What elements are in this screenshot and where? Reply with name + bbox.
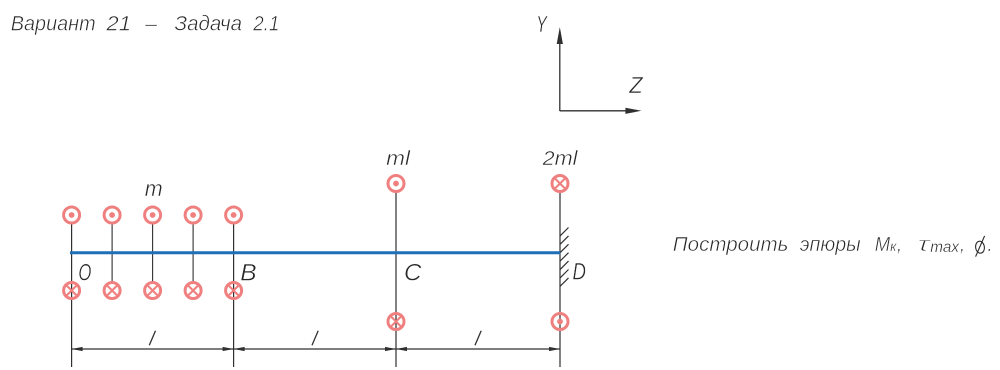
dimension line O-D: [72, 348, 560, 350]
beam (shaft) O-D: [70, 251, 561, 254]
wire: column 4 vertical line: [192, 224, 194, 283]
wire: column B vertical line: [233, 224, 235, 367]
axis Z arrowhead: [625, 108, 641, 114]
torque symbol: cross circle bottom m-row 4: [185, 283, 201, 299]
support hatching at D: [560, 228, 568, 287]
torque symbol: cross circle below C: [388, 314, 404, 330]
torque symbol: dot circle top m-row 4: [185, 207, 201, 223]
svg-text:D: D: [573, 259, 587, 286]
svg-text:B: B: [240, 259, 256, 286]
dimension label l (C-D): [475, 331, 481, 345]
dimension arrows at C: [385, 347, 407, 351]
torque symbol: cross circle bottom m-row 5: [226, 283, 242, 299]
wire: column 2 vertical line: [111, 224, 113, 283]
torque symbol: dot circle above C: [388, 176, 404, 192]
svg-text:O: O: [78, 259, 91, 286]
svg-text:Вариант21–Задача2.1: Вариант21–Задача2.1: [11, 12, 280, 35]
axis Z line: [560, 110, 627, 112]
wire: column D vertical line: [559, 193, 561, 368]
svg-text:Y: Y: [536, 11, 548, 37]
torque symbol: cross circle above D: [552, 176, 568, 192]
axis Y line: [559, 42, 561, 111]
svg-text:ПостроитьэпюрыМк,τmax,.: ПостроитьэпюрыМк,τmax,.: [673, 234, 993, 256]
torque symbol: cross circle bottom m-row 2: [104, 283, 120, 299]
wire: column O vertical line: [71, 224, 73, 367]
wire: column 3 vertical line: [152, 224, 154, 283]
torque symbol: dot circle top m-row 1: [64, 207, 80, 223]
torque symbol: dot circle below D: [552, 314, 568, 330]
torque symbol: cross circle bottom m-row 3: [145, 283, 161, 299]
torque symbol: dot circle top m-row 5: [226, 207, 242, 223]
torque symbol: dot circle top m-row 3: [145, 207, 161, 223]
dimension arrows at B: [223, 347, 245, 351]
torque symbol: dot circle top m-row 2: [104, 207, 120, 223]
torque symbol: cross circle bottom m-row 1: [64, 283, 80, 299]
dimension arrow at O pointing left: [72, 347, 83, 351]
wire: column C vertical line: [395, 193, 397, 368]
dimension label l (O-B): [149, 331, 155, 345]
svg-text:ml: ml: [386, 148, 410, 170]
axis Y arrowhead: [557, 27, 563, 44]
dimension label l (B-C): [312, 331, 318, 345]
svg-text:m: m: [145, 176, 163, 201]
svg-text:C: C: [404, 260, 422, 287]
svg-text:Z: Z: [628, 72, 643, 98]
symbol phi in task text: [975, 236, 985, 257]
dimension arrow at D pointing right: [549, 347, 560, 351]
svg-text:2ml: 2ml: [542, 148, 579, 170]
